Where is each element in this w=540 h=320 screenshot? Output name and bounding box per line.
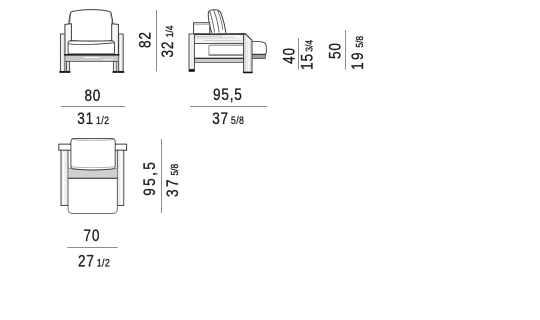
dim line horizontal 80 (front view)	[61, 106, 125, 108]
svg-text:40: 40	[280, 47, 299, 64]
svg-text:95,5: 95,5	[140, 160, 159, 196]
feet caps	[60, 71, 124, 73]
dim line horizontal 95,5 (side view)	[190, 106, 267, 108]
dim line vertical 95,5 (top view)	[161, 139, 163, 213]
bottom rail	[65, 55, 119, 62]
svg-text:50: 50	[326, 42, 345, 59]
left outer strip	[60, 34, 65, 72]
dim line vertical 50 (side view)	[345, 30, 347, 70]
tilted back cushion	[208, 10, 226, 33]
back cushion	[68, 10, 114, 43]
svg-text:80: 80	[84, 87, 101, 106]
back bar	[59, 144, 127, 150]
rear post	[189, 34, 194, 72]
left arm panel	[65, 24, 72, 55]
seat shadow band	[252, 55, 266, 59]
right outer strip	[119, 34, 124, 72]
dim line vertical 82 (front view)	[156, 10, 158, 71]
dim line vertical 40 (side view)	[298, 38, 300, 70]
seat cushion	[68, 41, 114, 55]
back frame box	[194, 23, 210, 34]
seat top edge line	[68, 177, 117, 179]
left inner leg	[66, 62, 69, 72]
seat cushion left part	[209, 45, 244, 55]
front leg panel	[244, 34, 252, 73]
dim line horizontal 70 (top view)	[67, 247, 118, 249]
right inner leg	[113, 62, 116, 72]
right rail	[117, 150, 124, 205]
right arm panel	[112, 24, 119, 55]
svg-text:95,5: 95,5	[213, 85, 243, 104]
seat	[68, 178, 117, 213]
left rail	[61, 150, 68, 205]
seat cushion right part	[252, 42, 266, 55]
svg-text:70: 70	[84, 226, 101, 245]
rail tip caps	[61, 205, 123, 207]
armrest plank	[189, 34, 245, 44]
pillow	[71, 138, 115, 170]
svg-text:82: 82	[136, 31, 155, 48]
lower rail	[194, 58, 243, 62]
gray band	[68, 169, 117, 179]
